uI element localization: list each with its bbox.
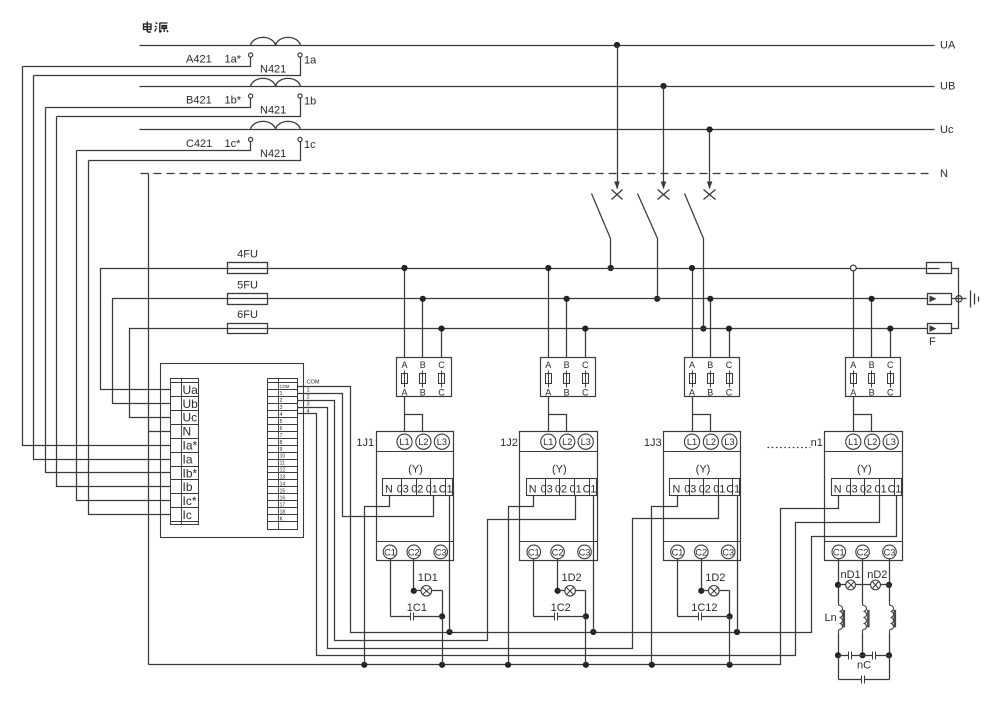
wire phase C line (to Uc) bbox=[140, 129, 935, 131]
svg-text:C3: C3 bbox=[579, 547, 591, 557]
terminal 1c bbox=[298, 137, 302, 141]
svg-text:(Y): (Y) bbox=[857, 464, 872, 476]
svg-text:C1: C1 bbox=[528, 547, 540, 557]
wire 1a* to terminal strip bbox=[23, 58, 251, 67]
terminal C2 (bottom) meter 1J1 bbox=[407, 545, 421, 559]
arrowhead S3 bbox=[707, 182, 713, 190]
svg-text:1D2: 1D2 bbox=[562, 572, 582, 584]
junction UB tap for switch 2 bbox=[660, 83, 666, 89]
switch blade S2 bbox=[638, 194, 658, 239]
svg-text:C: C bbox=[582, 387, 589, 397]
node bus A / n1 (open circle) bbox=[850, 265, 856, 271]
junction bus B / 1J2 bbox=[564, 296, 570, 302]
fuse A in box 3FU(1J3) bbox=[692, 371, 694, 388]
junction 1J2 N on neutral bus bbox=[505, 662, 511, 668]
junction bus A / 1J2 bbox=[545, 265, 551, 271]
terminal L1 meter n1 bbox=[846, 434, 861, 449]
fuse 5FU bbox=[228, 294, 268, 305]
contact X mark S2 bbox=[658, 190, 670, 200]
arrowhead S1 bbox=[614, 182, 620, 190]
svg-text:1c: 1c bbox=[304, 139, 316, 151]
svg-text:C1: C1 bbox=[583, 484, 597, 496]
svg-text:C3: C3 bbox=[722, 547, 734, 557]
svg-text:L3: L3 bbox=[724, 437, 734, 447]
wire neutral dashed line N bbox=[141, 173, 931, 175]
terminal L2 meter 1J1 bbox=[416, 434, 431, 449]
terminal C1 (bottom) meter 1J2 bbox=[527, 545, 541, 559]
wire 3: strip to 1J3 terminal 01 bbox=[298, 408, 719, 649]
svg-text:B: B bbox=[564, 360, 570, 370]
svg-text:1D2: 1D2 bbox=[705, 572, 725, 584]
junction lamp node 1J3 bbox=[698, 588, 704, 594]
junction lamp node 1J1 bbox=[411, 588, 417, 594]
terminal L3 meter n1 bbox=[883, 434, 898, 449]
svg-text:1C1: 1C1 bbox=[407, 602, 427, 614]
svg-text:01: 01 bbox=[426, 484, 438, 496]
junction capacitor node 1J3 bbox=[727, 613, 733, 619]
svg-text:1J2: 1J2 bbox=[500, 437, 518, 449]
test block terminal 2 (bus B) with arrow bbox=[928, 294, 952, 305]
test block terminal 1 (bus A) bbox=[927, 263, 952, 274]
svg-text:C1: C1 bbox=[888, 484, 902, 496]
svg-text:14: 14 bbox=[280, 482, 286, 488]
svg-text:L2: L2 bbox=[706, 437, 716, 447]
terminal L2 meter 1J3 bbox=[703, 434, 718, 449]
svg-text:A: A bbox=[545, 387, 551, 397]
svg-text:Uc: Uc bbox=[183, 411, 198, 425]
fuse box 1FU(1J1) bbox=[397, 358, 452, 397]
wire bottom neutral bus bbox=[149, 496, 839, 665]
wire phase B line (to UB) bbox=[140, 86, 935, 88]
wire bus C to fuse box 1J2 bbox=[585, 329, 587, 358]
svg-text:C: C bbox=[726, 387, 733, 397]
svg-text:B: B bbox=[564, 387, 570, 397]
svg-text:Ub: Ub bbox=[183, 397, 199, 411]
svg-text:03: 03 bbox=[846, 484, 858, 496]
svg-text:C3: C3 bbox=[884, 547, 896, 557]
svg-text:(Y): (Y) bbox=[552, 464, 567, 476]
inductor Ln phase 2 bbox=[863, 600, 867, 637]
svg-text:C2: C2 bbox=[408, 547, 420, 557]
wire bus A to fuse box 1J2 bbox=[548, 269, 550, 358]
svg-text:L1: L1 bbox=[848, 437, 858, 447]
wire bus A to fuse box 1J1 bbox=[404, 269, 406, 358]
terminal C2 (bottom) meter 1J2 bbox=[551, 545, 565, 559]
svg-text:N: N bbox=[385, 484, 393, 496]
svg-text:L2: L2 bbox=[867, 437, 877, 447]
svg-text:A: A bbox=[850, 387, 856, 397]
arrowhead S2 bbox=[661, 182, 667, 190]
svg-text:C1: C1 bbox=[439, 484, 453, 496]
svg-text:N421: N421 bbox=[260, 105, 286, 117]
terminal L1 meter 1J2 bbox=[541, 434, 556, 449]
svg-text:1b: 1b bbox=[304, 96, 316, 108]
svg-text:N421: N421 bbox=[260, 148, 286, 160]
wire 1a vertical to Ia row bbox=[34, 76, 171, 460]
terminal 1a* (polarity dot side) bbox=[249, 53, 253, 57]
svg-text:C2: C2 bbox=[857, 547, 869, 557]
fuse box 2FU(1J2) bbox=[541, 358, 596, 397]
wire lamp to capacitor junction 1J2 bbox=[585, 591, 587, 617]
svg-text:Ln: Ln bbox=[825, 612, 837, 624]
svg-text:5FU: 5FU bbox=[237, 279, 258, 291]
svg-text:UA: UA bbox=[940, 40, 956, 52]
terminal C1 (bottom) meter n1 bbox=[832, 545, 846, 559]
wire bus B to fuse box n1 bbox=[871, 299, 873, 358]
wire voltage bus C (6FU) with bend down to Uc row bbox=[130, 329, 928, 418]
lamp nD2 bbox=[863, 584, 871, 586]
disconnect switch S1 feed wire bbox=[617, 46, 619, 189]
wire voltage bus B (5FU) with bend down to Ub row bbox=[113, 299, 928, 404]
svg-text:C: C bbox=[438, 387, 445, 397]
svg-text:C1: C1 bbox=[726, 484, 740, 496]
node earth terminal circle bbox=[956, 296, 962, 302]
wire bus A to fuse box n1 bbox=[853, 269, 855, 358]
svg-text:16: 16 bbox=[280, 495, 286, 501]
fuse B in box nFU(n1) bbox=[871, 371, 873, 388]
svg-text:Ia: Ia bbox=[183, 452, 193, 466]
wire bus B to fuse box 1J2 bbox=[566, 299, 568, 358]
svg-text:9: 9 bbox=[280, 447, 283, 453]
wire n1 C1 bottom terminal down bbox=[838, 559, 840, 585]
terminal C3 (bottom) meter n1 bbox=[883, 545, 897, 559]
svg-text:18: 18 bbox=[280, 509, 286, 515]
wire 1b vertical to Ib row bbox=[57, 117, 171, 487]
svg-text:1C12: 1C12 bbox=[691, 602, 717, 614]
wire N tap vertical (from dashed N down to bottom neutral bus) bbox=[148, 174, 150, 665]
lamp nD1 bbox=[839, 584, 846, 586]
svg-text:1: 1 bbox=[280, 391, 283, 397]
current transformer C421 bbox=[251, 121, 301, 129]
wire C2 bottom terminal down (1J2) bbox=[557, 559, 559, 591]
inductor Ln phase 1 bbox=[839, 600, 843, 637]
wire N row branch into strip bbox=[149, 431, 171, 433]
terminal C3 (bottom) meter 1J2 bbox=[578, 545, 592, 559]
svg-text:B: B bbox=[707, 360, 713, 370]
terminal row N 03 02 01 C1 meter 1J1 bbox=[383, 479, 453, 496]
fuse A in box 1FU(1J1) bbox=[404, 371, 406, 388]
svg-text:03: 03 bbox=[684, 484, 696, 496]
junction COM rail at 1J1 C1 drop bbox=[446, 629, 452, 635]
svg-text:B: B bbox=[420, 387, 426, 397]
terminal box outline bbox=[161, 364, 304, 538]
fuse C in box 2FU(1J2) bbox=[585, 371, 587, 388]
fuse box 3FU(1J3) bbox=[685, 358, 740, 397]
ground symbol bbox=[970, 291, 972, 308]
svg-text:13: 13 bbox=[280, 475, 286, 481]
svg-text:C: C bbox=[726, 360, 733, 370]
svg-text:B: B bbox=[869, 360, 875, 370]
svg-text:10: 10 bbox=[280, 454, 286, 460]
terminal C3 (bottom) meter 1J3 bbox=[721, 545, 735, 559]
wire bus C to fuse box n1 bbox=[890, 329, 892, 358]
svg-text:1: 1 bbox=[307, 387, 310, 393]
svg-text:1b*: 1b* bbox=[225, 95, 242, 107]
terminal strip right (numbered outputs) bbox=[268, 379, 298, 530]
terminal C2 (bottom) meter 1J3 bbox=[695, 545, 709, 559]
terminal L2 meter n1 bbox=[865, 434, 880, 449]
disconnect switch S2 feed wire bbox=[663, 87, 665, 189]
wire 1b* to terminal strip bbox=[46, 99, 251, 108]
svg-text:C: C bbox=[438, 360, 445, 370]
fuse A in box 2FU(1J2) bbox=[548, 371, 550, 388]
svg-text:N: N bbox=[834, 484, 842, 496]
svg-text:2: 2 bbox=[280, 398, 283, 404]
svg-text:L3: L3 bbox=[437, 437, 447, 447]
terminal C1 (bottom) meter 1J3 bbox=[671, 545, 685, 559]
svg-text:N: N bbox=[529, 484, 537, 496]
wire 1c to terminal strip bbox=[89, 142, 301, 161]
wire 1c* vertical to Ic* row bbox=[77, 151, 171, 501]
junction COM rail at 1J3 C1 drop bbox=[734, 629, 740, 635]
svg-text:1J3: 1J3 bbox=[644, 437, 662, 449]
terminal row N 03 02 01 C1 meter n1 bbox=[832, 479, 902, 496]
switch blade S3 bbox=[685, 194, 704, 239]
wire capacitor junction to neutral bus 1J1 bbox=[442, 617, 444, 665]
svg-text:C1: C1 bbox=[833, 547, 845, 557]
wire N terminal of 1J1 to neutral bus bbox=[365, 496, 390, 665]
capacitor 1C1 bbox=[391, 616, 411, 618]
svg-text:F: F bbox=[929, 336, 936, 348]
wire bus A to fuse box 1J3 bbox=[692, 269, 694, 358]
capacitor 1C12 bbox=[678, 616, 699, 618]
junction 1J2 lamp return on neutral bus bbox=[583, 662, 589, 668]
svg-text:1a*: 1a* bbox=[225, 54, 242, 66]
wire bus B to fuse box 1J3 bbox=[710, 299, 712, 358]
fuse B in box 1FU(1J1) bbox=[422, 371, 424, 388]
junction n1 cap row 3 bbox=[886, 652, 892, 658]
wire phase A line (to UA) bbox=[140, 45, 935, 47]
svg-text:5: 5 bbox=[280, 419, 283, 425]
wire 1a to terminal strip bbox=[34, 58, 301, 76]
junction capacitor node 1J2 bbox=[583, 613, 589, 619]
fuse C in box 3FU(1J3) bbox=[729, 371, 731, 388]
terminal L1 meter 1J1 bbox=[397, 434, 412, 449]
meter unit 1J3 outline bbox=[664, 432, 741, 561]
wire 1c vertical to Ic row bbox=[89, 161, 171, 515]
wire fuse box to meter 1J1 (L1/L2 feed) bbox=[405, 397, 423, 432]
capacitor nC (1-2) bbox=[839, 655, 849, 657]
svg-text:1c*: 1c* bbox=[225, 138, 242, 150]
contact X mark S3 bbox=[704, 190, 716, 200]
fuse 6FU bbox=[228, 324, 268, 334]
junction bus B / 1J1 bbox=[420, 296, 426, 302]
svg-text:3: 3 bbox=[280, 405, 283, 411]
svg-text:17: 17 bbox=[280, 502, 286, 508]
wire N terminal of 1J2 to neutral bus bbox=[509, 496, 534, 665]
lamp 1D2 bbox=[702, 590, 709, 592]
svg-text:02: 02 bbox=[860, 484, 872, 496]
junction 1J3 N on neutral bus bbox=[649, 662, 655, 668]
terminal C2 (bottom) meter n1 bbox=[856, 545, 870, 559]
svg-text:(Y): (Y) bbox=[696, 464, 711, 476]
junction 1J1 lamp return on neutral bus bbox=[439, 662, 445, 668]
svg-text:C: C bbox=[887, 360, 894, 370]
junction S2 on bus bbox=[654, 296, 660, 302]
svg-text:11: 11 bbox=[280, 461, 285, 467]
svg-text:C421: C421 bbox=[186, 138, 212, 150]
svg-text:COM: COM bbox=[307, 379, 320, 385]
junction 1J3 lamp return on neutral bus bbox=[727, 662, 733, 668]
wire fuse box to meter n1 (L1/L2 feed) bbox=[854, 397, 872, 432]
inductor Ln phase 3 bbox=[890, 600, 894, 637]
wire lamp to capacitor junction 1J3 bbox=[729, 591, 731, 617]
disconnect switch S3 feed wire bbox=[709, 130, 711, 189]
svg-text:12: 12 bbox=[280, 468, 286, 474]
contact X mark S1 bbox=[612, 190, 623, 200]
terminal 1b* (polarity dot side) bbox=[249, 94, 253, 98]
wire bus B to fuse box 1J1 bbox=[422, 299, 424, 358]
svg-text:nD2: nD2 bbox=[867, 569, 887, 581]
capacitor 1C2 bbox=[534, 616, 555, 618]
svg-text:A: A bbox=[850, 360, 856, 370]
fuse C in box 1FU(1J1) bbox=[441, 371, 443, 388]
junction bus A / 1J1 bbox=[401, 265, 407, 271]
wire C1 bottom terminal down (1J1) bbox=[390, 559, 392, 617]
junction bus C / 1J2 bbox=[582, 326, 588, 332]
svg-text:Ia*: Ia* bbox=[183, 438, 198, 452]
terminal C3 (bottom) meter 1J1 bbox=[434, 545, 448, 559]
terminal row N 03 02 01 C1 meter 1J3 bbox=[670, 479, 740, 496]
svg-text:L1: L1 bbox=[543, 437, 553, 447]
terminal strip left (voltage/current inputs) bbox=[171, 379, 199, 525]
lamp 1D1 bbox=[414, 590, 422, 592]
svg-text:Ib: Ib bbox=[183, 480, 193, 494]
junction bus A / 1J3 bbox=[689, 265, 695, 271]
switch blade S1 bbox=[592, 194, 611, 239]
svg-text:N: N bbox=[672, 484, 680, 496]
svg-text:C3: C3 bbox=[435, 547, 447, 557]
capacitor nC (outer 1-3 loop) bbox=[838, 656, 840, 680]
wire lamp to capacitor junction 1J1 bbox=[442, 591, 444, 617]
svg-text:15: 15 bbox=[280, 488, 286, 494]
junction S3 on bus bbox=[700, 326, 706, 332]
junction n1 cap row 2 bbox=[859, 652, 865, 658]
svg-text:A: A bbox=[689, 387, 695, 397]
svg-text:COM: COM bbox=[280, 384, 290, 389]
wire n1 lamp row to inductors bbox=[838, 585, 840, 602]
svg-text:Ic: Ic bbox=[183, 508, 192, 522]
fuse 4FU bbox=[228, 263, 268, 274]
svg-text:01: 01 bbox=[875, 484, 887, 496]
svg-text:1C2: 1C2 bbox=[551, 602, 571, 614]
fuse A in box nFU(n1) bbox=[853, 371, 855, 388]
junction n1 lamp row right bbox=[886, 582, 892, 588]
svg-text:7: 7 bbox=[280, 433, 283, 439]
svg-text:B: B bbox=[707, 387, 713, 397]
test block terminal 3 (bus C) with arrow bbox=[928, 324, 952, 334]
svg-text:n1: n1 bbox=[811, 437, 823, 449]
wire 2: strip to 1J2 terminal 01 bbox=[298, 401, 576, 641]
svg-text:8: 8 bbox=[280, 440, 283, 446]
capacitor nC (2-3) bbox=[863, 655, 873, 657]
svg-text:01: 01 bbox=[570, 484, 582, 496]
wire 1c* to terminal strip bbox=[77, 142, 251, 151]
terminal C1 (bottom) meter 1J1 bbox=[383, 545, 397, 559]
svg-text:L3: L3 bbox=[886, 437, 896, 447]
svg-text:A: A bbox=[401, 387, 407, 397]
meter unit 1J2 outline bbox=[520, 432, 598, 561]
junction 1J1 N on neutral bus bbox=[361, 662, 367, 668]
svg-text:L1: L1 bbox=[399, 437, 409, 447]
svg-text:03: 03 bbox=[397, 484, 409, 496]
svg-text:4FU: 4FU bbox=[237, 249, 258, 261]
svg-text:A: A bbox=[545, 360, 551, 370]
terminal L2 meter 1J2 bbox=[560, 434, 575, 449]
svg-text:02: 02 bbox=[555, 484, 567, 496]
wire C1 terminal drop of 1J3 to COM rail bbox=[737, 496, 739, 633]
svg-text:B421: B421 bbox=[186, 95, 212, 107]
terminal 1a bbox=[298, 53, 302, 57]
wire S2 to voltage bus bbox=[657, 239, 659, 299]
svg-text:B: B bbox=[420, 360, 426, 370]
svg-text:nD1: nD1 bbox=[841, 569, 861, 581]
junction bus B / 1J3 bbox=[707, 296, 713, 302]
svg-text:C2: C2 bbox=[552, 547, 564, 557]
wire n1 C2 bottom terminal down bbox=[862, 559, 864, 602]
svg-text:N: N bbox=[940, 168, 948, 180]
wire 1: strip to 1J1 terminal 01 bbox=[298, 394, 434, 517]
wire 1b* vertical to Ib* row bbox=[46, 108, 171, 473]
junction bus C / n1 bbox=[887, 326, 893, 332]
wire fuse box to meter 1J3 (L1/L2 feed) bbox=[693, 397, 711, 432]
svg-text:01: 01 bbox=[713, 484, 725, 496]
fuse C in box nFU(n1) bbox=[890, 371, 892, 388]
svg-text:03: 03 bbox=[541, 484, 553, 496]
svg-text:A: A bbox=[689, 360, 695, 370]
svg-text:N421: N421 bbox=[260, 64, 286, 76]
wire capacitor junction to neutral bus 1J2 bbox=[585, 617, 587, 665]
fuse B in box 3FU(1J3) bbox=[710, 371, 712, 388]
terminal L3 meter 1J2 bbox=[578, 434, 593, 449]
terminal L3 meter 1J3 bbox=[722, 434, 737, 449]
fuse B in box 2FU(1J2) bbox=[566, 371, 568, 388]
terminal 1b bbox=[298, 94, 302, 98]
wire 1a* vertical to Ia* row bbox=[23, 67, 171, 446]
wire voltage bus A (4FU) with bend down to Ua row bbox=[101, 269, 927, 390]
wire test block common link bbox=[952, 269, 967, 329]
wire COM: strip to common rail chaining meter C1 terminals bbox=[298, 387, 897, 633]
wire 4: strip to meter n1 terminal 01 bbox=[298, 414, 880, 656]
svg-text:C1: C1 bbox=[384, 547, 396, 557]
wire n1 C3 bottom terminal down bbox=[889, 559, 891, 585]
svg-text:1D1: 1D1 bbox=[418, 572, 438, 584]
svg-text:L1: L1 bbox=[687, 437, 697, 447]
svg-text:UB: UB bbox=[940, 81, 955, 93]
svg-text:02: 02 bbox=[411, 484, 423, 496]
junction Uc tap for switch 3 bbox=[707, 126, 713, 132]
svg-text:B: B bbox=[869, 387, 875, 397]
svg-text:nC: nC bbox=[857, 660, 871, 672]
wire capacitor junction to neutral bus 1J3 bbox=[729, 617, 731, 665]
svg-text:L2: L2 bbox=[418, 437, 428, 447]
meter unit n1 outline bbox=[825, 432, 903, 561]
label 电源 (power source) bbox=[144, 22, 169, 33]
svg-text:6FU: 6FU bbox=[237, 309, 258, 321]
wire bus C to fuse box 1J1 bbox=[441, 329, 443, 358]
junction n1 lamp row left bbox=[835, 582, 841, 588]
svg-text:C2: C2 bbox=[695, 547, 707, 557]
svg-text:A421: A421 bbox=[186, 54, 212, 66]
junction S1 on bus bbox=[608, 265, 614, 271]
svg-text:Ic*: Ic* bbox=[183, 494, 197, 508]
svg-text:L3: L3 bbox=[581, 437, 591, 447]
svg-text:A: A bbox=[401, 360, 407, 370]
lamp 1D2 bbox=[558, 590, 565, 592]
svg-text:C1: C1 bbox=[672, 547, 684, 557]
svg-text:4: 4 bbox=[280, 412, 283, 418]
svg-text:02: 02 bbox=[699, 484, 711, 496]
